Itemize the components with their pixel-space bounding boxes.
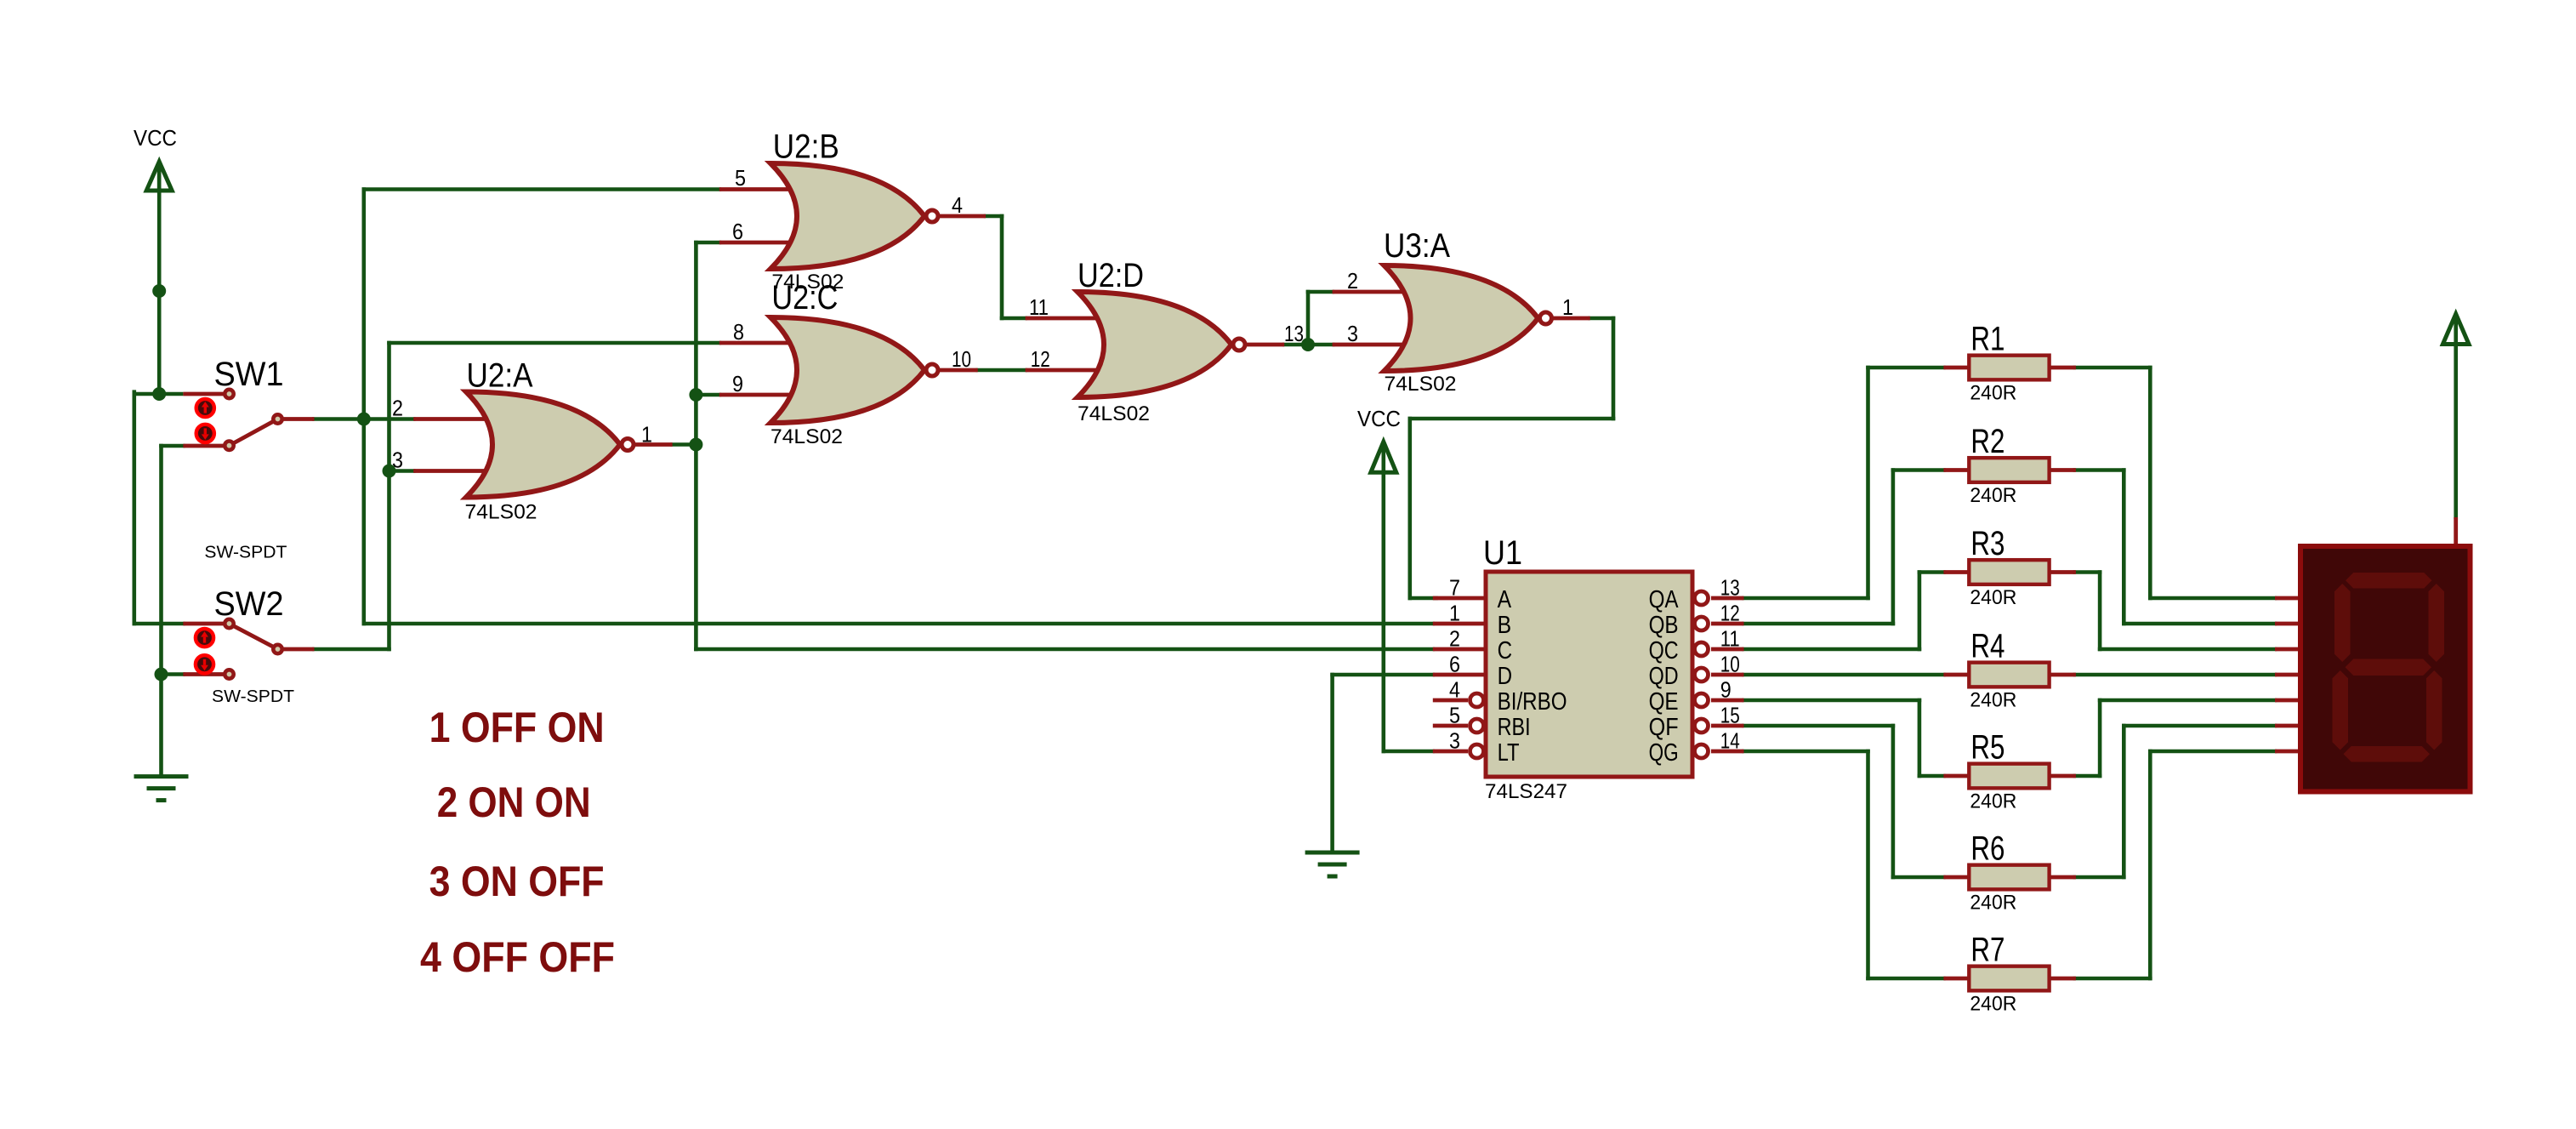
pin display segment 2 lead	[2275, 622, 2301, 626]
pin U1 QC stub	[1711, 647, 1744, 652]
ground below switches	[134, 777, 189, 801]
wire U1 QA output horizontal	[1742, 596, 1870, 601]
wire display seg 2 horizontal	[2122, 622, 2277, 626]
wire U2:D output	[1282, 343, 1310, 347]
node U2:D output junction	[1301, 338, 1315, 351]
label 240R of R1	[1970, 382, 2016, 405]
pin R1 right lead	[2050, 366, 2076, 370]
svg-text:12: 12	[1720, 601, 1740, 626]
svg-text:240R: 240R	[1970, 993, 2016, 1016]
wire display seg 1 horizontal	[2148, 596, 2277, 601]
label 74LS02 under U2:D	[1078, 402, 1150, 425]
pin R4 right lead	[2050, 673, 2076, 677]
svg-text:U2:A: U2:A	[467, 357, 533, 395]
label SW2	[214, 585, 284, 623]
wire R3 vertical to display	[2098, 570, 2102, 651]
label 240R of R2	[1970, 484, 2016, 507]
svg-text:R1: R1	[1970, 321, 2005, 358]
pin number 12 U2:D	[1031, 346, 1050, 372]
label R5	[1970, 729, 2005, 767]
svg-text:R7: R7	[1970, 932, 2005, 969]
pin name QB	[1649, 612, 1679, 639]
wire U3:A output	[1588, 316, 1615, 321]
svg-text:LT: LT	[1498, 739, 1520, 767]
svg-text:QE: QE	[1649, 688, 1679, 716]
pin number 6 U2:B	[732, 219, 743, 244]
svg-text:1: 1	[641, 422, 652, 448]
label U2:D	[1078, 257, 1144, 294]
wire U3:A out vertical	[1612, 316, 1616, 421]
wire R6 left horizontal	[1891, 875, 1946, 880]
label 74LS02 under U2:A	[465, 501, 537, 524]
pin U1 QG stub	[1711, 750, 1744, 754]
pin U1 QA stub	[1711, 596, 1744, 601]
pin number 6 U1 left	[1449, 652, 1460, 677]
wire VCC2 vertical to LT	[1382, 470, 1386, 753]
node VCC junction	[152, 387, 166, 401]
svg-text:240R: 240R	[1970, 689, 2016, 712]
pin name QE	[1649, 688, 1679, 716]
resistor R1 240R	[1969, 356, 2049, 380]
wire net1 vertical x427	[361, 187, 366, 625]
svg-text:RBI: RBI	[1498, 714, 1531, 741]
svg-text:9: 9	[732, 371, 743, 396]
svg-text:74LS247: 74LS247	[1485, 780, 1567, 803]
svg-text:SW2: SW2	[214, 585, 284, 623]
svg-text:10: 10	[952, 346, 971, 372]
wire display anode vertical	[2454, 342, 2458, 519]
pin name QF	[1649, 714, 1679, 741]
NOR gate U2:A (74LS02)	[413, 392, 672, 498]
pin number 7 U1 left	[1449, 575, 1460, 601]
label R6	[1970, 830, 2005, 868]
svg-text:U1: U1	[1483, 534, 1522, 572]
svg-text:QF: QF	[1649, 714, 1679, 741]
wire R5 vertical to display	[2098, 698, 2102, 778]
wire U1 QG output horizontal	[1742, 750, 1870, 754]
svg-text:74LS02: 74LS02	[465, 501, 537, 524]
pin display anode lead	[2454, 517, 2458, 548]
svg-text:1 OFF ON: 1 OFF ON	[429, 704, 605, 751]
pin number 5 U1 left	[1449, 703, 1460, 728]
node U2:A pin3 junction	[383, 465, 396, 478]
wire U2:B pin5 horizontal	[362, 187, 722, 191]
switch SW1 SW-SPDT	[196, 390, 282, 450]
pin name LT	[1498, 739, 1520, 767]
pin R2 left lead	[1943, 468, 1970, 472]
label SW-SPDT for SW1	[204, 543, 287, 562]
svg-text:VCC: VCC	[134, 125, 177, 151]
wire U1 QE output horizontal	[1742, 698, 1921, 703]
pin R3 right lead	[2050, 570, 2076, 574]
pin SW1 top terminal stub	[183, 392, 224, 396]
pin number 4 U1 left	[1449, 677, 1460, 703]
pin display segment 5 lead	[2275, 698, 2301, 703]
svg-text:U2:D: U2:D	[1078, 257, 1144, 294]
IC U1 74LS247 body	[1470, 572, 1709, 777]
label R7	[1970, 932, 2005, 969]
wire R3 right horizontal	[2073, 570, 2102, 574]
resistor R5 240R	[1969, 764, 2049, 789]
pin number 2 U2:A	[392, 396, 403, 421]
wire display seg 5 horizontal	[2098, 698, 2277, 703]
pin name C	[1498, 637, 1513, 664]
wire R1 right horizontal	[2073, 366, 2152, 370]
svg-text:2: 2	[1347, 268, 1358, 294]
label 74LS247	[1485, 780, 1567, 803]
pin number 10 U1 right	[1720, 652, 1740, 677]
resistor R7 240R	[1969, 966, 2049, 991]
wire R7 right horizontal	[2073, 977, 2152, 981]
wire SW2 pole horizontal	[312, 647, 391, 652]
pin U1 LT stub	[1433, 750, 1468, 754]
svg-text:4: 4	[952, 192, 963, 218]
pin number 2 U1 left	[1449, 626, 1460, 652]
wire U2:A output	[670, 442, 697, 447]
wire U2:C out to U2:D pin12	[975, 368, 1027, 373]
node SW2 bottom junction	[155, 668, 168, 681]
label VCC top-left	[134, 125, 177, 151]
pin U1 QD stub	[1711, 673, 1744, 677]
svg-text:14: 14	[1720, 728, 1740, 754]
annotation 1 OFF ON	[429, 704, 605, 751]
svg-text:A: A	[1498, 586, 1512, 613]
svg-text:R4: R4	[1970, 628, 2005, 665]
svg-text:13: 13	[1720, 575, 1740, 601]
svg-text:2: 2	[392, 396, 403, 421]
wire R5 left horizontal	[1918, 774, 1946, 778]
svg-text:5: 5	[1449, 703, 1460, 728]
svg-text:QG: QG	[1649, 739, 1679, 767]
svg-text:11: 11	[1029, 294, 1049, 320]
pin U1 QF stub	[1711, 724, 1744, 728]
wire U1 QD output to R4	[1742, 673, 1946, 677]
wire R2 left horizontal	[1891, 468, 1946, 472]
wire SW1 pole to junction	[312, 417, 366, 421]
svg-text:12: 12	[1031, 346, 1050, 372]
pin R7 right lead	[2050, 977, 2076, 981]
svg-text:7: 7	[1449, 575, 1460, 601]
svg-text:6: 6	[1449, 652, 1460, 677]
pin R5 left lead	[1943, 774, 1970, 778]
svg-text:R3: R3	[1970, 525, 2005, 562]
pin number 15 U1 right	[1720, 703, 1740, 728]
wire QG vertical to R7	[1866, 750, 1870, 981]
label SW-SPDT for SW2	[212, 687, 294, 706]
wire left vertical to SW2 top	[133, 390, 137, 625]
svg-text:6: 6	[732, 219, 743, 244]
pin number 5 U2:B	[735, 165, 746, 191]
svg-text:2: 2	[1449, 626, 1460, 652]
svg-text:D: D	[1498, 663, 1513, 690]
svg-text:U2:B: U2:B	[773, 128, 839, 165]
pin U1 RBI stub	[1433, 724, 1468, 728]
label R1	[1970, 321, 2005, 358]
svg-text:15: 15	[1720, 703, 1740, 728]
wire U1 A input	[1408, 596, 1438, 601]
svg-text:8: 8	[733, 319, 744, 345]
annotation 2 ON ON	[437, 778, 591, 826]
label 240R of R5	[1970, 790, 2016, 813]
resistor R4 240R	[1969, 663, 2049, 687]
wire VCC horizontal to SW1 top	[134, 392, 184, 396]
svg-text:SW-SPDT: SW-SPDT	[204, 543, 287, 562]
label SW1	[214, 356, 284, 393]
svg-text:11: 11	[1720, 626, 1740, 652]
svg-text:QA: QA	[1649, 586, 1679, 613]
svg-text:4: 4	[1449, 677, 1460, 703]
pin number 3 U1 left	[1449, 728, 1460, 754]
pin U1 A stub	[1433, 596, 1486, 601]
power VCC arrow top-left	[146, 162, 172, 192]
pin number 4 U2:B out	[952, 192, 963, 218]
pin U1 BI/RBO stub	[1433, 698, 1468, 703]
resistor R2 240R	[1969, 458, 2049, 482]
pin number 14 U1 right	[1720, 728, 1740, 754]
pin name QC	[1649, 637, 1679, 664]
wire R2 right horizontal	[2073, 468, 2126, 472]
pin name A	[1498, 586, 1512, 613]
pin R3 left lead	[1943, 570, 1970, 574]
switch SW2 SW-SPDT	[196, 619, 282, 679]
wire SW2 top horizontal	[133, 622, 185, 626]
svg-text:3: 3	[1449, 728, 1460, 754]
pin number 1 U3:A out	[1562, 294, 1573, 320]
node VCC rail dot	[152, 284, 166, 298]
wire U1 LT input	[1382, 750, 1436, 754]
pin number 11 U1 right	[1720, 626, 1740, 652]
label U3:A	[1384, 227, 1450, 265]
label R2	[1970, 423, 2005, 460]
label 74LS02 under U2:B	[771, 271, 844, 294]
pin display segment 7 lead	[2275, 750, 2301, 754]
wire U2:A pin2	[362, 417, 416, 421]
pin display segment 3 lead	[2275, 647, 2301, 652]
pin display segment 4 lead	[2275, 673, 2301, 677]
pin R1 left lead	[1943, 366, 1970, 370]
pin U1 QB stub	[1711, 622, 1744, 626]
pin name QD	[1649, 663, 1679, 690]
pin SW2 pole stub	[282, 647, 315, 652]
annotation 4 OFF OFF	[420, 933, 615, 981]
wire R7 vertical to display	[2148, 750, 2152, 981]
label 240R of R7	[1970, 993, 2016, 1016]
pin R7 left lead	[1943, 977, 1970, 981]
svg-text:SW1: SW1	[214, 356, 284, 393]
wire U1 QF output horizontal	[1742, 724, 1895, 728]
pin U1 B stub	[1433, 622, 1486, 626]
wire QF vertical to R6	[1891, 724, 1896, 880]
pin name QA	[1649, 586, 1679, 613]
NOR gate U3:A (74LS02)	[1333, 265, 1590, 371]
pin R6 right lead	[2050, 875, 2076, 880]
svg-text:5: 5	[735, 165, 746, 191]
display 7-segment (common anode)	[2300, 546, 2471, 792]
svg-text:QC: QC	[1649, 637, 1679, 664]
wire display seg 3 horizontal	[2098, 647, 2277, 652]
wire QE vertical to R5	[1918, 698, 1922, 778]
pin number 11 U2:D	[1029, 294, 1049, 320]
svg-text:QB: QB	[1649, 612, 1679, 639]
pin R4 left lead	[1943, 673, 1970, 677]
pin display segment 1 lead	[2275, 596, 2301, 601]
pin number 13 U1 right	[1720, 575, 1740, 601]
svg-text:R5: R5	[1970, 729, 2005, 767]
label 74LS02 under U3:A	[1385, 373, 1457, 396]
wire U2:B pin6	[694, 241, 721, 245]
wire SW2 bottom horizontal	[159, 672, 185, 676]
svg-text:QD: QD	[1649, 663, 1679, 690]
wire U3:A pin2	[1306, 290, 1334, 294]
resistor R6 240R	[1969, 865, 2049, 890]
wire ground rail vertical	[159, 444, 163, 778]
wire U1 QB output horizontal	[1742, 622, 1895, 626]
svg-text:SW-SPDT: SW-SPDT	[212, 687, 294, 706]
wire U1 D input	[1330, 673, 1435, 677]
wire R6 vertical to display	[2122, 724, 2126, 880]
resistor R3 240R	[1969, 560, 2049, 584]
pin R5 right lead	[2050, 774, 2076, 778]
wire node13 vertical	[1306, 290, 1311, 347]
wire D ground vertical	[1330, 673, 1334, 855]
label U2:C	[771, 279, 838, 316]
wire R6 right horizontal	[2073, 875, 2126, 880]
svg-text:BI/RBO: BI/RBO	[1498, 688, 1567, 716]
label VCC above U1	[1357, 406, 1401, 431]
svg-text:240R: 240R	[1970, 790, 2016, 813]
wire U3:A out horizontal y492	[1408, 417, 1616, 421]
power VCC arrow display anode	[2442, 314, 2469, 346]
wire U2:A pin3	[387, 469, 415, 473]
pin name B	[1498, 612, 1512, 639]
wire R4 right to display	[2073, 673, 2277, 677]
wire R5 right horizontal	[2073, 774, 2102, 778]
wire QA vertical to R1	[1866, 366, 1870, 601]
pin number 1 U2:A out	[641, 422, 652, 448]
pin U1 D stub	[1433, 673, 1486, 677]
pin name D	[1498, 663, 1513, 690]
pin number 2 U3:A	[1347, 268, 1358, 294]
svg-text:13: 13	[1284, 321, 1304, 346]
svg-text:R2: R2	[1970, 423, 2005, 460]
svg-text:1: 1	[1562, 294, 1573, 320]
svg-text:VCC: VCC	[1357, 406, 1401, 431]
annotation 3 ON OFF	[429, 858, 605, 905]
wire U2:C pin9	[694, 393, 721, 397]
wire U2:B output	[984, 214, 1004, 219]
wire R3 left horizontal	[1918, 570, 1946, 574]
pin number 3 U3:A	[1347, 321, 1358, 346]
pin SW1 pole stub	[282, 417, 315, 421]
wire net2 vertical x457	[387, 341, 391, 652]
label U2:A	[467, 357, 533, 395]
svg-text:1: 1	[1449, 601, 1460, 626]
node U2:C pin9 junction	[689, 388, 702, 402]
svg-text:240R: 240R	[1970, 382, 2016, 405]
pin number 13 U2:D out	[1284, 321, 1304, 346]
ground below U1	[1305, 852, 1360, 876]
svg-text:C: C	[1498, 637, 1513, 664]
svg-text:9: 9	[1720, 677, 1732, 703]
svg-text:240R: 240R	[1970, 586, 2016, 609]
pin number 10 U2:C out	[952, 346, 971, 372]
svg-text:U3:A: U3:A	[1384, 227, 1450, 265]
label R4	[1970, 628, 2005, 665]
svg-text:240R: 240R	[1970, 892, 2016, 915]
power VCC arrow above U1	[1371, 442, 1396, 474]
wire U2:B out vertical	[1000, 214, 1004, 321]
wire U2:C pin8 horizontal	[387, 341, 721, 345]
pin SW1 bottom terminal stub	[183, 444, 224, 448]
pin name QG	[1649, 739, 1679, 767]
pin number 9 U2:C	[732, 371, 743, 396]
label 240R of R6	[1970, 892, 2016, 915]
wire VCC rail vertical	[157, 163, 162, 396]
wire U1 C input long horizontal	[694, 647, 1435, 652]
NOR gate U2:D (74LS02)	[1026, 292, 1285, 397]
svg-text:3: 3	[392, 448, 403, 473]
pin name BI/RBO	[1498, 688, 1567, 716]
wire U2:D pin11	[1000, 316, 1027, 321]
wire net3 vertical x818	[694, 241, 698, 652]
svg-text:2 ON ON: 2 ON ON	[437, 778, 591, 826]
wire display seg 7 horizontal	[2148, 750, 2277, 754]
svg-text:10: 10	[1720, 652, 1740, 677]
wire R7 left horizontal	[1866, 977, 1946, 981]
label 240R of R4	[1970, 689, 2016, 712]
wire R2 vertical to display	[2122, 468, 2126, 625]
pin display segment 6 lead	[2275, 724, 2301, 728]
svg-text:74LS02: 74LS02	[1385, 373, 1457, 396]
svg-text:3 ON OFF: 3 ON OFF	[429, 858, 605, 905]
label U2:B	[773, 128, 839, 165]
node SW1 pole junction	[357, 413, 371, 426]
NOR gate U2:B (74LS02)	[719, 163, 986, 269]
pin U1 C stub	[1433, 647, 1486, 652]
label 74LS02 under U2:C	[771, 425, 843, 448]
svg-text:4 OFF OFF: 4 OFF OFF	[420, 933, 615, 981]
wire QC vertical to R3	[1918, 570, 1922, 651]
NOR gate U2:C (74LS02)	[719, 317, 978, 423]
pin number 8 U2:C	[733, 319, 744, 345]
svg-text:R6: R6	[1970, 830, 2005, 868]
pin number 3 U2:A	[392, 448, 403, 473]
pin number 12 U1 right	[1720, 601, 1740, 626]
pin number 9 U1 right	[1720, 677, 1732, 703]
wire U1 QC output horizontal	[1742, 647, 1921, 652]
label R3	[1970, 525, 2005, 562]
pin R2 right lead	[2050, 468, 2076, 472]
label 240R of R3	[1970, 586, 2016, 609]
pin SW2 top terminal stub	[183, 622, 224, 626]
svg-text:74LS02: 74LS02	[1078, 402, 1150, 425]
wire U3:A pin3	[1306, 343, 1335, 347]
svg-text:74LS02: 74LS02	[771, 425, 843, 448]
wire U1 B input long horizontal	[362, 622, 1436, 626]
node U2:A output junction	[689, 438, 702, 452]
wire U1 A vertical	[1408, 417, 1413, 601]
pin SW2 bottom terminal stub	[183, 672, 224, 676]
wire SW1 bottom horizontal	[159, 444, 185, 448]
pin U1 QE stub	[1711, 698, 1744, 703]
label U1	[1483, 534, 1522, 572]
wire QB vertical to R2	[1891, 468, 1896, 625]
svg-text:U2:C: U2:C	[771, 279, 838, 316]
svg-text:B: B	[1498, 612, 1512, 639]
pin number 1 U1 left	[1449, 601, 1460, 626]
pin name RBI	[1498, 714, 1531, 741]
wire display seg 6 horizontal	[2122, 724, 2277, 728]
